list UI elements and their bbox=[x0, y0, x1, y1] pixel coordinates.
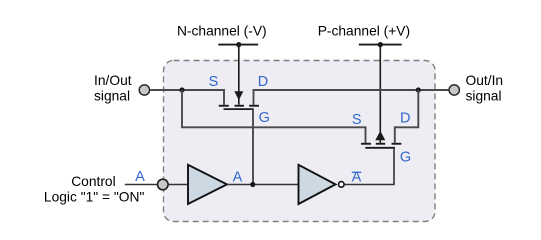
svg-text:S: S bbox=[209, 74, 219, 90]
svg-text:Logic "1" = "ON": Logic "1" = "ON" bbox=[44, 190, 145, 205]
buffer U1 bbox=[188, 165, 227, 204]
terminal: Control bbox=[158, 179, 169, 190]
overbar of A-bar bbox=[352, 171, 361, 173]
svg-text:P-channel (+V): P-channel (+V) bbox=[318, 23, 410, 38]
junction: Out/In node bbox=[416, 87, 421, 92]
wire: Control terminal to buffer input bbox=[169, 184, 190, 186]
svg-text:signal: signal bbox=[466, 88, 502, 103]
wire: Q1 drain to Out/In terminal bbox=[253, 89, 449, 91]
-V supply rail bar bbox=[218, 44, 258, 46]
svg-text:G: G bbox=[259, 110, 270, 126]
terminal: In/Out signal bbox=[139, 85, 149, 95]
IC boundary dashed box bbox=[164, 61, 436, 222]
svg-text:In/Out: In/Out bbox=[94, 73, 132, 88]
svg-text:S: S bbox=[352, 112, 362, 128]
svg-text:N-channel (-V): N-channel (-V) bbox=[177, 23, 267, 38]
junction: Q2 body to +V rail bbox=[378, 42, 383, 47]
junction: In/Out node bbox=[179, 87, 184, 92]
wire: Q1 body to -V rail bbox=[238, 45, 240, 105]
svg-text:Control: Control bbox=[71, 174, 115, 189]
transistor Q1: N-channel MOSFET bbox=[219, 89, 259, 109]
wire: Control input bbox=[125, 184, 158, 186]
transistor Q2: P-channel MOSFET bbox=[361, 126, 401, 147]
svg-text:G: G bbox=[400, 150, 411, 166]
svg-text:signal: signal bbox=[94, 88, 130, 103]
wire: In/Out terminal to Q1 source bbox=[150, 89, 225, 91]
wire: In/Out node down and right to Q2 source bbox=[182, 90, 366, 127]
junction: node A bbox=[250, 182, 255, 187]
wire: buffer output to inverter input (node A) bbox=[227, 184, 300, 186]
svg-text:D: D bbox=[258, 74, 268, 90]
svg-text:A: A bbox=[135, 169, 145, 185]
inverter U2 output bubble bbox=[339, 182, 345, 188]
svg-text:A: A bbox=[233, 169, 243, 185]
junction: Q1 body to -V rail bbox=[236, 42, 241, 47]
wire: Out/In node down and left to Q2 drain bbox=[394, 90, 418, 127]
+V supply rail bar bbox=[359, 44, 402, 46]
svg-text:D: D bbox=[400, 111, 410, 127]
wire: inverter output to Q2 gate bbox=[344, 148, 394, 185]
inverter U2 bbox=[299, 165, 336, 204]
wire: Q1 gate down to node A bbox=[252, 109, 254, 184]
terminal: Out/In signal bbox=[449, 85, 459, 95]
svg-text:Out/In: Out/In bbox=[466, 73, 504, 88]
wire: Q2 body to +V rail bbox=[379, 45, 381, 143]
